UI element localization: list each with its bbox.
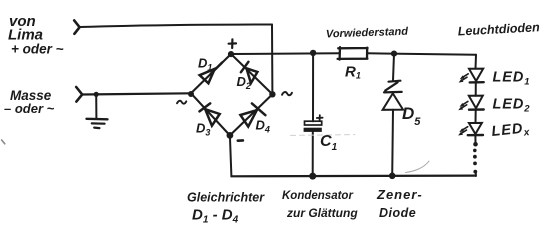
svg-text:– oder ~: – oder ~ bbox=[4, 101, 55, 116]
svg-text:Vorwiederstand: Vorwiederstand bbox=[326, 26, 409, 41]
svg-text:LED2: LED2 bbox=[493, 97, 531, 115]
svg-text:D1: D1 bbox=[198, 56, 212, 73]
svg-text:+ oder ~: + oder ~ bbox=[11, 42, 64, 57]
svg-text:Kondensator: Kondensator bbox=[282, 190, 353, 202]
svg-text:Leuchtdioden: Leuchtdioden bbox=[457, 20, 540, 38]
svg-text:LED1: LED1 bbox=[493, 70, 530, 88]
svg-text:Diode: Diode bbox=[379, 206, 416, 220]
svg-text:Zener-: Zener- bbox=[376, 187, 423, 202]
svg-text:D4: D4 bbox=[256, 118, 270, 135]
svg-text:zur Glättung: zur Glättung bbox=[286, 206, 358, 220]
svg-text:Gleichrichter: Gleichrichter bbox=[187, 191, 265, 205]
svg-text:D3: D3 bbox=[196, 121, 210, 138]
svg-text:D1 - D4: D1 - D4 bbox=[192, 207, 239, 226]
svg-text:D5: D5 bbox=[402, 104, 421, 128]
svg-text:C1: C1 bbox=[320, 133, 338, 153]
svg-text:LEDx: LEDx bbox=[491, 120, 531, 142]
svg-text:R1: R1 bbox=[345, 64, 361, 81]
